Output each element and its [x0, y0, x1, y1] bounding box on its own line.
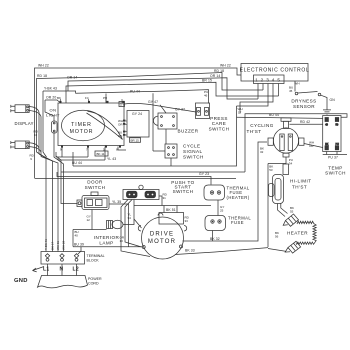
motor left diagonal: [134, 219, 142, 228]
dryness sensor contact B: [318, 93, 321, 96]
svg-text:CARE: CARE: [212, 121, 227, 126]
svg-text:MOTOR: MOTOR: [70, 129, 94, 135]
svg-text:BLOCK: BLOCK: [87, 258, 100, 262]
terminal 3 wire: [237, 84, 269, 107]
left fan wires to terminal block: [37, 91, 47, 252]
svg-text:ELECTRONIC CONTROL: ELECTRONIC CONTROL: [240, 68, 310, 74]
svg-text:GY 24: GY 24: [132, 112, 142, 116]
cycling thermostat TH1: [268, 118, 304, 157]
svg-text:PU: PU: [336, 143, 340, 146]
wire RD 18: [37, 73, 264, 153]
svg-text:12345: 12345: [255, 78, 283, 83]
svg-text:Y-BK 43: Y-BK 43: [44, 239, 48, 250]
svg-text:SWITCH: SWITCH: [85, 185, 106, 190]
svg-text:BR 15: BR 15: [202, 79, 212, 83]
timer bottom wires: [56, 147, 105, 161]
wire cycle switch to BU44: [170, 158, 172, 166]
BK11 label box: [95, 151, 108, 156]
svg-text:OR 14: OR 14: [67, 76, 77, 80]
svg-text:RD 18: RD 18: [214, 69, 224, 73]
svg-text:GY: GY: [120, 103, 124, 107]
svg-text:WH 29: WH 29: [62, 241, 66, 251]
svg-text:MOTOR: MOTOR: [148, 239, 176, 245]
svg-text:BK 17: BK 17: [51, 241, 55, 250]
svg-text:12: 12: [87, 218, 91, 222]
timer right terminals: [123, 121, 125, 135]
svg-text:GND: GND: [14, 278, 28, 284]
svg-text:CYCLING: CYCLING: [250, 123, 274, 128]
heater R1 zigzag: [296, 221, 316, 244]
svg-text:INTERIOR: INTERIOR: [94, 235, 120, 240]
svg-text:25: 25: [220, 209, 224, 213]
svg-text:LIGHT: LIGHT: [46, 112, 60, 117]
wire BK 51: [134, 205, 211, 207]
wire WH 22: [35, 68, 242, 178]
svg-text:40: 40: [75, 234, 79, 238]
wire YL 35: [109, 204, 129, 247]
wire RD 42: [290, 123, 323, 125]
svg-text:TH'ST: TH'ST: [292, 185, 307, 190]
svg-text:YL 35: YL 35: [112, 200, 121, 204]
svg-text:45: 45: [289, 89, 293, 93]
console bottom edge: [35, 178, 237, 180]
wire GY 12: [91, 210, 93, 230]
timer aux box GY24: [127, 111, 149, 138]
svg-text:RD 42: RD 42: [300, 120, 310, 124]
svg-text:PU 37: PU 37: [328, 156, 338, 160]
on light lamp: [52, 121, 58, 133]
cycle signal switch S2: [165, 144, 177, 158]
svg-text:OR 20: OR 20: [46, 96, 56, 100]
wire BU 40: [72, 230, 74, 247]
hi-limit plunger: [283, 164, 289, 175]
svg-text:BK: BK: [57, 96, 61, 100]
svg-text:56: 56: [275, 235, 279, 239]
electronic control terminal strip: [254, 75, 285, 84]
wire BK 56: [268, 249, 286, 252]
svg-text:CYCLE: CYCLE: [183, 143, 201, 148]
svg-text:BK 33: BK 33: [185, 249, 195, 253]
wire BK 55: [278, 204, 288, 217]
svg-text:BK 32: BK 32: [210, 237, 220, 241]
svg-text:31: 31: [163, 196, 167, 200]
GY terminal box: [119, 102, 125, 107]
svg-text:GY 23: GY 23: [199, 172, 209, 176]
cycling box bottom wire: [61, 171, 245, 173]
interior lamp L1: [107, 220, 124, 228]
svg-text:34: 34: [289, 161, 293, 165]
svg-text:BU 44: BU 44: [269, 113, 279, 117]
svg-text:SWITCH: SWITCH: [183, 154, 204, 159]
svg-text:N: N: [60, 267, 64, 273]
svg-text:BUZZER: BUZZER: [178, 128, 199, 133]
wire BU 44 top: [237, 117, 323, 118]
GND arrow: [33, 267, 45, 271]
timer BR15 terminal box: [130, 138, 141, 143]
buzzer BZ1: [153, 113, 177, 129]
svg-text:BR 15: BR 15: [131, 139, 140, 143]
svg-text:CORD: CORD: [88, 282, 99, 286]
svg-text:10: 10: [34, 133, 38, 137]
svg-text:BK: BK: [325, 143, 329, 146]
terminal 5 wire: [278, 84, 280, 97]
svg-text:33: 33: [185, 219, 189, 223]
motor box wires: [164, 206, 177, 213]
svg-text:TH'ST: TH'ST: [246, 129, 261, 134]
timer bottom terminals: [61, 145, 121, 147]
svg-text:WH: WH: [295, 82, 300, 86]
display unit top: [11, 105, 41, 117]
push switch left drop wires: [121, 200, 150, 257]
wire BU 44 right: [73, 106, 237, 166]
svg-text:RD 18: RD 18: [37, 74, 47, 78]
temp switch S4: [323, 116, 341, 152]
svg-text:BK 11: BK 11: [97, 152, 105, 156]
terminal 1 wire: [257, 84, 259, 100]
timer top terminal pins: [61, 99, 123, 103]
timer box: [58, 103, 124, 146]
wire BR 15: [66, 82, 279, 103]
wire GN to ground: [321, 95, 327, 109]
svg-text:TIMER: TIMER: [71, 122, 92, 128]
svg-text:POWER: POWER: [88, 277, 102, 281]
thermal fuse heater F1: [204, 185, 225, 200]
thermal fuse F2: [205, 216, 226, 231]
svg-text:WH 22: WH 22: [220, 64, 231, 68]
wire PU 37: [323, 152, 347, 155]
wire BK 33: [175, 248, 268, 255]
wire WH/OR to temp switch: [304, 144, 323, 148]
svg-text:WH 11: WH 11: [56, 241, 60, 250]
svg-text:PU: PU: [103, 96, 107, 100]
svg-text:17: 17: [238, 111, 242, 115]
display drop wires: [39, 112, 41, 157]
svg-text:SWITCH: SWITCH: [173, 189, 194, 194]
buzzer stub: [160, 105, 166, 113]
heater connector bottom: [285, 241, 300, 253]
svg-text:BU 39: BU 39: [74, 242, 84, 246]
temp switch pin labels: [325, 123, 339, 146]
svg-text:DOOR: DOOR: [87, 179, 103, 184]
cycling section box: [245, 114, 347, 172]
wire GY 23: [57, 172, 211, 185]
wire BK 32: [183, 142, 268, 241]
svg-text:GN: GN: [330, 98, 336, 102]
timer motor ellipse: [62, 110, 105, 140]
press care switch S3: [196, 103, 210, 119]
svg-text:SWITCH: SWITCH: [325, 171, 346, 176]
timer cam swoosh: [87, 112, 123, 140]
svg-text:HEATER: HEATER: [287, 231, 308, 236]
wire OR 14: [68, 78, 258, 99]
door switch S5: [77, 192, 109, 210]
svg-text:34: 34: [128, 216, 132, 220]
svg-text:32: 32: [260, 150, 264, 154]
svg-text:13: 13: [120, 239, 124, 243]
svg-text:(HEATER): (HEATER): [227, 195, 250, 200]
wire RD 31: [159, 196, 162, 206]
terminal block stems: [48, 264, 77, 276]
svg-text:PU 44: PU 44: [130, 89, 140, 93]
svg-text:YL 43: YL 43: [107, 157, 116, 161]
hi-limit thermostat TH2: [269, 175, 284, 204]
timer right stubs: [125, 121, 128, 135]
display unit bottom: [11, 141, 41, 152]
timer top terminals: [60, 101, 125, 103]
terminal 2 wire: [262, 84, 264, 91]
svg-text:BK 51: BK 51: [166, 208, 176, 212]
svg-text:GY 32: GY 32: [175, 107, 185, 111]
svg-text:SWITCH: SWITCH: [209, 126, 230, 131]
power cord: [38, 276, 88, 288]
wire PU 34: [268, 157, 286, 164]
electronic control U1: [241, 64, 308, 82]
dryness sensor drop wire: [294, 81, 296, 92]
svg-text:55: 55: [290, 209, 294, 213]
svg-text:BU 44: BU 44: [72, 161, 82, 165]
svg-text:TEMP: TEMP: [328, 165, 343, 170]
wire BU 39: [73, 247, 143, 254]
vertical wire x153: [153, 93, 165, 151]
svg-text:53: 53: [269, 168, 273, 172]
wire GY 47/32: [125, 103, 197, 112]
wire GY 25: [217, 200, 219, 216]
svg-text:FUSE: FUSE: [231, 220, 244, 225]
svg-text:Y-BK 43: Y-BK 43: [44, 87, 57, 91]
svg-text:OR 14: OR 14: [210, 74, 220, 78]
wire thermal fuse to BK32: [212, 231, 214, 242]
svg-text:LAMP: LAMP: [99, 241, 113, 246]
wire YL 43: [118, 147, 126, 151]
wire N to door switch: [56, 156, 77, 204]
svg-text:DRYNESS: DRYNESS: [291, 98, 316, 103]
push to start switch S6: [123, 185, 159, 199]
svg-text:HI-LIMIT: HI-LIMIT: [290, 179, 311, 184]
svg-text:L2: L2: [73, 267, 79, 273]
svg-text:WH 22: WH 22: [38, 64, 49, 68]
svg-text:L1: L1: [43, 267, 49, 273]
wire Y-BK 43: [43, 91, 76, 94]
svg-text:DRIVE: DRIVE: [150, 232, 174, 238]
wire OR 20: [45, 100, 60, 103]
wire PU 44: [76, 90, 209, 104]
wire to on-light: [45, 100, 54, 121]
wire YL 34: [123, 200, 134, 225]
heater connector top: [283, 214, 298, 226]
svg-text:SIGNAL: SIGNAL: [183, 149, 203, 154]
wire BK 53: [267, 164, 269, 248]
dryness sensor contact A: [295, 92, 298, 95]
svg-text:GY 47: GY 47: [148, 100, 158, 104]
wire PU44 stub: [105, 94, 107, 104]
interior lamp wire: [73, 229, 107, 231]
drive motor M1: [138, 213, 187, 260]
dryness sensor blade: [298, 92, 318, 94]
svg-text:46: 46: [204, 94, 208, 98]
svg-text:DISPLAY: DISPLAY: [15, 121, 34, 126]
svg-text:SENSOR: SENSOR: [293, 104, 315, 109]
wire from timer to BU44: [72, 152, 74, 166]
terminal 4 wire: [240, 84, 273, 114]
ground: [323, 110, 331, 114]
wire buzzer to cycle switch: [165, 129, 167, 144]
terminal block TB1: [41, 252, 85, 265]
svg-text:F4: F4: [85, 96, 89, 100]
